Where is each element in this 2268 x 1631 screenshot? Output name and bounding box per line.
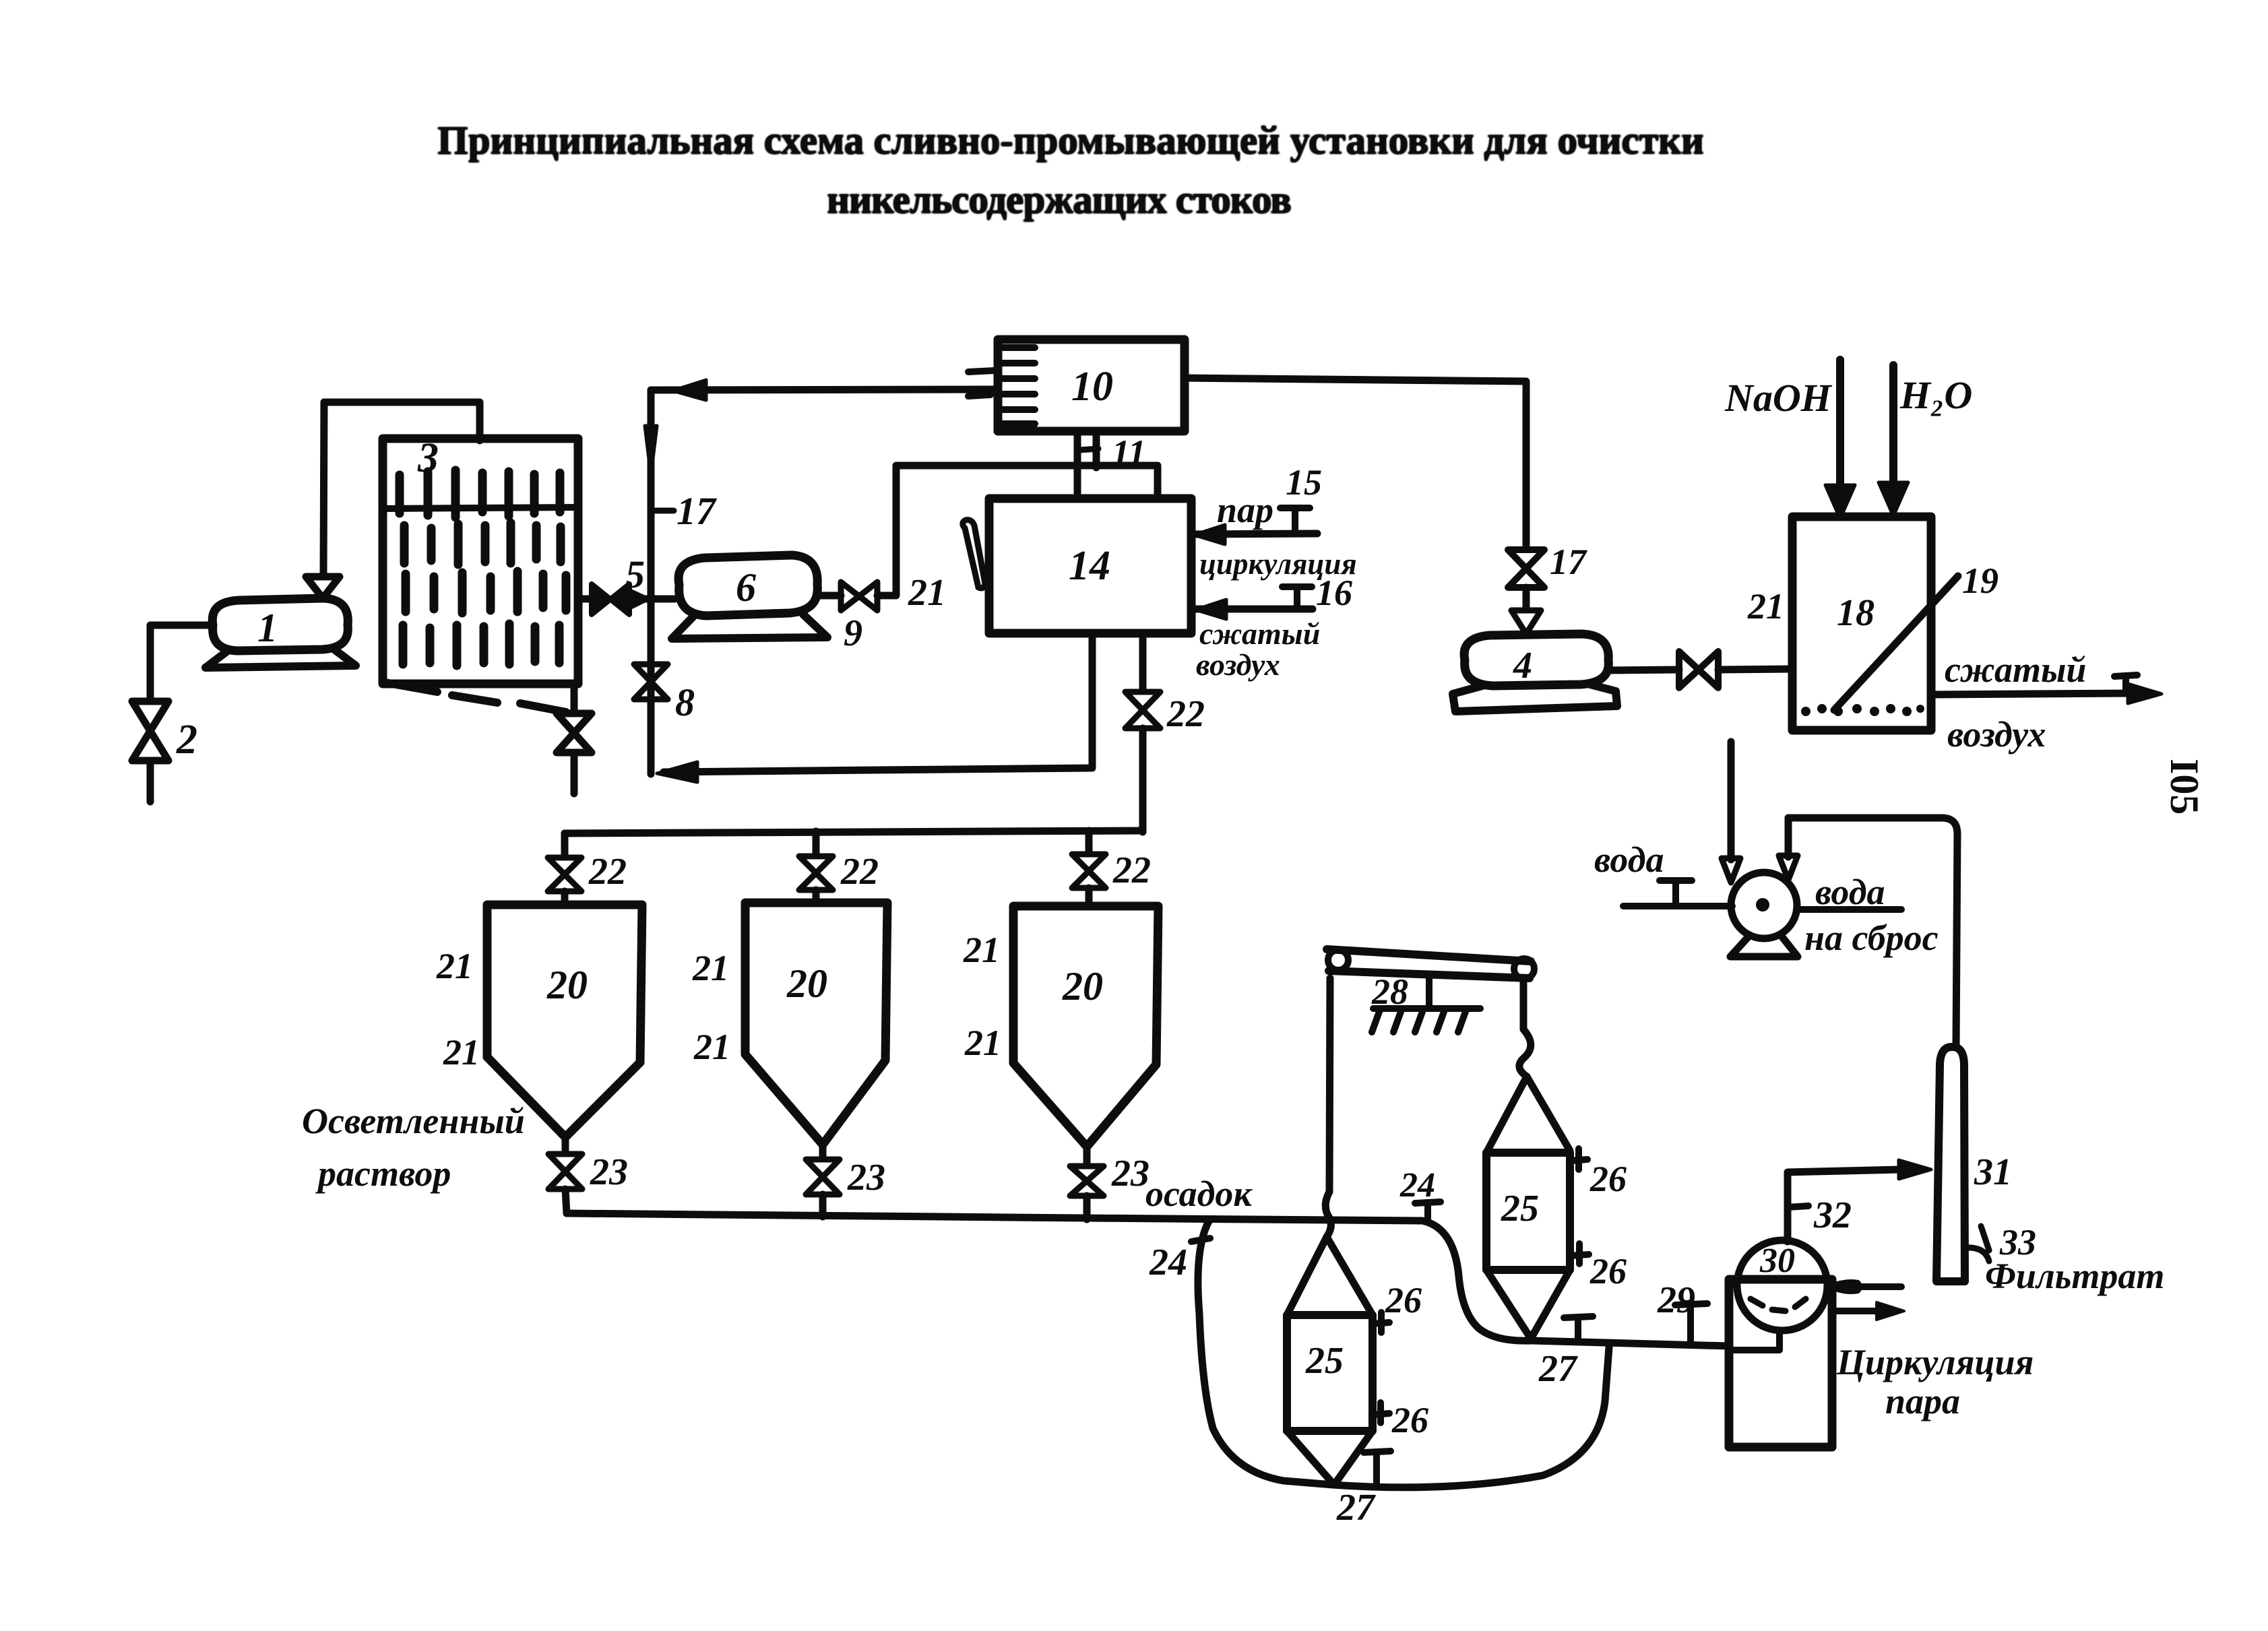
wire stub below valve 2 (147, 761, 154, 802)
tank 28 roller right cap (1514, 959, 1534, 979)
tank 6 (679, 555, 817, 616)
water pump base (1730, 934, 1798, 957)
svg-text:14: 14 (1069, 543, 1110, 589)
pulp outlet arrow from pump 30 (1833, 1308, 1880, 1314)
svg-text:10: 10 (1071, 364, 1113, 410)
tick 26 upper-right of lower filter (1373, 1312, 1389, 1333)
tank 18 (1792, 517, 1931, 730)
svg-text:19: 19 (1962, 561, 1998, 601)
distribution header (565, 831, 1143, 841)
svg-text:NaOH: NaOH (1724, 376, 1833, 420)
wire from overhead pipe into funnel (323, 402, 324, 577)
arrowhead air outlet (2128, 684, 2162, 703)
dashed drain diagonal below tank 3 (385, 682, 437, 692)
T symbol 27 at upper filter outlet (1564, 1316, 1593, 1339)
svg-text:1: 1 (257, 606, 278, 650)
svg-text:21: 21 (693, 1027, 730, 1067)
drain valve below tank 3 (557, 684, 592, 794)
svg-text:пар: пар (1217, 490, 1273, 530)
tank 3 (383, 439, 578, 684)
svg-text:21: 21 (436, 946, 473, 986)
air line 16 into reactor 14 (1193, 606, 1313, 613)
svg-text:пара: пара (1885, 1381, 1960, 1421)
svg-text:6: 6 (736, 565, 756, 610)
valve 2 (132, 701, 168, 761)
svg-text:20: 20 (1062, 964, 1103, 1009)
wire valve 22d to header (1139, 728, 1147, 832)
valve 22d below reactor (1125, 692, 1160, 728)
lower filter 25 diamond top (1287, 1237, 1373, 1315)
pump suction line 27-29 (1532, 1341, 1729, 1346)
arrowhead on wire to riser (672, 380, 706, 400)
sludge collect line (567, 1213, 1532, 1341)
small arrow after valve 5 (632, 591, 650, 608)
wire reactor 14 bottom to valve 22d (1139, 633, 1147, 691)
svg-text:22: 22 (840, 851, 879, 893)
label 17 tick (651, 508, 674, 514)
arrowhead down into water pump right (1779, 856, 1798, 880)
wire valve 22c to tank 20c (1085, 888, 1093, 907)
valve 22c (1072, 854, 1106, 888)
lower filter 25 funnel (1287, 1431, 1373, 1485)
svg-text:17: 17 (1550, 542, 1587, 582)
loose dashes left of condenser 10 (968, 371, 995, 372)
upper filter 25 diamond top (1486, 1077, 1570, 1153)
wire valve 17R to arrow (1523, 587, 1530, 610)
upper filter 25 body (1486, 1153, 1570, 1270)
arrowhead into column 31 (1899, 1160, 1931, 1179)
tick 26 lower-right of lower filter (1373, 1403, 1389, 1423)
svg-text:25: 25 (1305, 1340, 1344, 1382)
arrowhead steam line (1194, 525, 1225, 544)
wire tank 4 to valve (1608, 670, 1679, 670)
svg-text:Циркуляция: Циркуляция (1836, 1342, 2034, 1382)
svg-text:24: 24 (1149, 1242, 1187, 1283)
wire tank 20b to valve 23b (819, 1145, 827, 1159)
electrode dashes row 4 in tank 3 (403, 624, 559, 666)
title line 2 (827, 177, 1292, 222)
svg-text:23: 23 (1111, 1153, 1149, 1194)
inlet funnel on tank 1 (306, 577, 340, 598)
tank 28 roller top (1327, 949, 1531, 978)
T symbol 27 at lower filter outlet (1364, 1451, 1391, 1482)
valve between 4 and 18 (1679, 651, 1718, 688)
svg-text:17: 17 (676, 489, 717, 533)
pump internal stub (1729, 1331, 1779, 1350)
svg-text:16: 16 (1316, 573, 1352, 613)
filter column 31 (1936, 1047, 1965, 1281)
wire condenser 10 to riser (651, 389, 998, 390)
valve 22b (799, 856, 833, 890)
wire overhead pipe to tank 3 (324, 402, 480, 441)
tank 28 left wall (1329, 978, 1330, 1192)
svg-text:сжатый: сжатый (1199, 616, 1320, 651)
settler tank 20c (1013, 906, 1158, 1147)
T symbol on air outlet (2114, 675, 2137, 693)
label 24 tick left (1191, 1238, 1210, 1242)
wire tank 28 bottom through collect line to lower filter (1325, 1192, 1331, 1237)
drop to valve 22c (1085, 831, 1093, 854)
svg-text:воздух: воздух (1947, 714, 2046, 755)
electrode dashes row 2 in tank 3 (404, 523, 561, 565)
svg-text:27: 27 (1336, 1487, 1376, 1529)
lower filter 25 body (1287, 1315, 1373, 1431)
tick 26 upper-right of upper filter (1570, 1149, 1587, 1170)
svg-text:26: 26 (1385, 1280, 1422, 1320)
rake symbol in tank 28 (1373, 978, 1480, 1009)
svg-text:26: 26 (1391, 1400, 1428, 1440)
label 32 tick (1788, 1206, 1808, 1207)
agitator stick on reactor 14 (963, 520, 985, 588)
wire valve 22a to tank 20a (561, 891, 569, 905)
arrowhead air line (1195, 600, 1226, 619)
valve 23c (1070, 1166, 1104, 1196)
wire 32 pump to column 31 (1788, 1170, 1900, 1242)
tank 1 (212, 598, 348, 651)
svg-text:26: 26 (1589, 1251, 1627, 1291)
return curve lower filter to pump line (1333, 1347, 1609, 1488)
pump 30 circle (1737, 1240, 1827, 1331)
svg-text:раствор: раствор (315, 1153, 451, 1194)
dashed vanes in pump 30 (1751, 1299, 1806, 1311)
svg-text:31: 31 (1974, 1151, 2012, 1193)
svg-text:23: 23 (590, 1151, 628, 1193)
arrowhead return wire (657, 762, 697, 782)
svg-text:2: 2 (176, 717, 197, 763)
svg-text:никельсодержащих стоков: никельсодержащих стоков (827, 177, 1292, 222)
svg-text:воздух: воздух (1196, 647, 1280, 682)
air outlet line from tank 18 (1931, 693, 2136, 695)
wire from tank18 area down to water pump left (1728, 742, 1735, 860)
valve 8 (634, 664, 668, 699)
T symbol 15 (1280, 508, 1310, 534)
tank 4 stand (1453, 684, 1617, 711)
svg-text:22: 22 (588, 851, 627, 893)
svg-text:9: 9 (844, 612, 862, 654)
svg-text:8: 8 (675, 680, 695, 724)
valve 23b (806, 1159, 840, 1194)
svg-text:18: 18 (1837, 592, 1875, 634)
svg-text:Осветленный: Осветленный (302, 1101, 525, 1141)
valve 22a (548, 858, 581, 891)
svg-text:21: 21 (964, 1023, 1001, 1063)
svg-text:21: 21 (443, 1032, 480, 1073)
H2O feed arrow (1889, 365, 1897, 484)
svg-text:29: 29 (1657, 1279, 1695, 1321)
valve 9 (841, 582, 877, 610)
wire tank 6 to valve 9 (817, 592, 841, 600)
settler tank 20b (745, 903, 887, 1145)
wire tank 3 to valve 5 (578, 596, 593, 603)
svg-text:на сброс: на сброс (1804, 918, 1939, 958)
diagonal sparger pipe 19 (1834, 576, 1958, 710)
wire tank 20a to valve 23a (562, 1137, 569, 1153)
svg-text:24: 24 (1399, 1166, 1435, 1205)
connector 11 between 10 and 14 (1074, 431, 1081, 499)
label 33 mark (1981, 1226, 1989, 1250)
svg-text:25: 25 (1501, 1188, 1539, 1229)
filtrate return arrow into pump 30 (1860, 1283, 1901, 1290)
water pump shaft dot (1756, 898, 1769, 912)
main vertical riser 17 (648, 390, 655, 774)
arrowhead down into water pump left (1722, 858, 1740, 883)
water inlet line (1623, 903, 1732, 909)
svg-text:15: 15 (1286, 462, 1322, 503)
svg-text:H₂O: H₂O (1899, 373, 1972, 417)
electrode dashes row 1 in tank 3 (400, 470, 560, 517)
drop to valve 22b (813, 831, 820, 856)
reactor 14 (989, 499, 1191, 633)
T symbol 16 (1282, 587, 1312, 608)
pump 30 tank (1729, 1279, 1832, 1447)
valve 23a (548, 1154, 582, 1189)
svg-text:I05: I05 (2162, 759, 2207, 814)
electrode dashes row 3 in tank 3 (406, 571, 566, 613)
tick 26 lower-right of upper filter (1570, 1244, 1589, 1264)
svg-text:20: 20 (546, 963, 588, 1007)
wire tank 20c to valve 23c (1083, 1147, 1091, 1165)
T symbol 29 (1675, 1304, 1707, 1345)
tank 28 roller left cap (1328, 950, 1348, 970)
svg-text:21: 21 (692, 948, 729, 988)
tank 28 right wall with wiggle (1519, 980, 1531, 1077)
water outlet line (1796, 906, 1901, 913)
drop to valve 22a (561, 833, 569, 857)
wire feed into tank 1 (150, 625, 213, 701)
sparger dots in tank 18 (1801, 704, 1924, 716)
tank 6 stand (672, 614, 827, 639)
wire condenser 10 to valve 17R (1185, 378, 1526, 549)
down arrow on riser (645, 426, 657, 476)
wire valve 23b to collect line (819, 1194, 827, 1217)
wire valve 5 to main vertical (629, 596, 674, 603)
valve 17R (1508, 550, 1544, 587)
svg-text:5: 5 (625, 552, 645, 596)
svg-text:11: 11 (1112, 433, 1146, 473)
NaOH feed arrow (1836, 360, 1844, 486)
svg-text:вода: вода (1815, 872, 1885, 912)
svg-text:32: 32 (1813, 1194, 1852, 1236)
tank 1 stand (206, 649, 356, 668)
hollow arrow into tank 4 (1511, 610, 1541, 634)
settler tank 20a (487, 905, 642, 1137)
condenser 10 (998, 340, 1185, 431)
wire column 31 top to water pump (1788, 818, 1957, 1047)
svg-text:вода: вода (1594, 839, 1664, 880)
svg-text:20: 20 (786, 961, 827, 1006)
svg-text:21: 21 (1747, 586, 1784, 627)
wire valve 23a to collect line (565, 1189, 567, 1213)
tank 4 (1464, 634, 1608, 686)
title line 1 (437, 118, 1704, 162)
svg-text:23: 23 (847, 1157, 885, 1198)
steam line 15 into reactor 14 (1193, 534, 1317, 534)
wire 33 squiggle to filtrate (1965, 1248, 1989, 1261)
svg-text:22: 22 (1166, 693, 1205, 735)
svg-text:4: 4 (1513, 645, 1532, 686)
svg-text:22: 22 (1112, 850, 1151, 891)
branch 24 curve to lower filter (1198, 1220, 1333, 1485)
wire valve 22b to tank 20b (813, 890, 820, 903)
svg-text:Принципиальная схема сливно-пр: Принципиальная схема сливно-промывающей … (437, 118, 1704, 162)
liquid level line in tank 3 (383, 507, 578, 509)
svg-text:27: 27 (1538, 1348, 1578, 1390)
svg-text:21: 21 (963, 930, 1000, 970)
valve 5 (592, 584, 629, 614)
svg-text:сжатый: сжатый (1945, 649, 2086, 690)
svg-text:21: 21 (908, 572, 946, 614)
wire valve 9 up-over to reactor 14 (877, 466, 1158, 596)
wire reactor 14 bottom return (664, 633, 1092, 772)
upper filter 25 funnel (1486, 1270, 1570, 1339)
wire valve to tank 18 (1718, 669, 1792, 670)
wire valve 23c to collect line (1083, 1196, 1091, 1219)
svg-text:Фильтрат: Фильтрат (1985, 1256, 2164, 1296)
comb teeth of condenser 10 (999, 348, 1035, 424)
svg-text:30: 30 (1759, 1242, 1795, 1280)
water pump circle (1731, 872, 1797, 938)
svg-text:26: 26 (1589, 1159, 1627, 1199)
T symbol 24 on collect line (1415, 1202, 1441, 1220)
svg-text:осадок: осадок (1145, 1174, 1253, 1214)
T symbol on water inlet (1660, 881, 1692, 905)
